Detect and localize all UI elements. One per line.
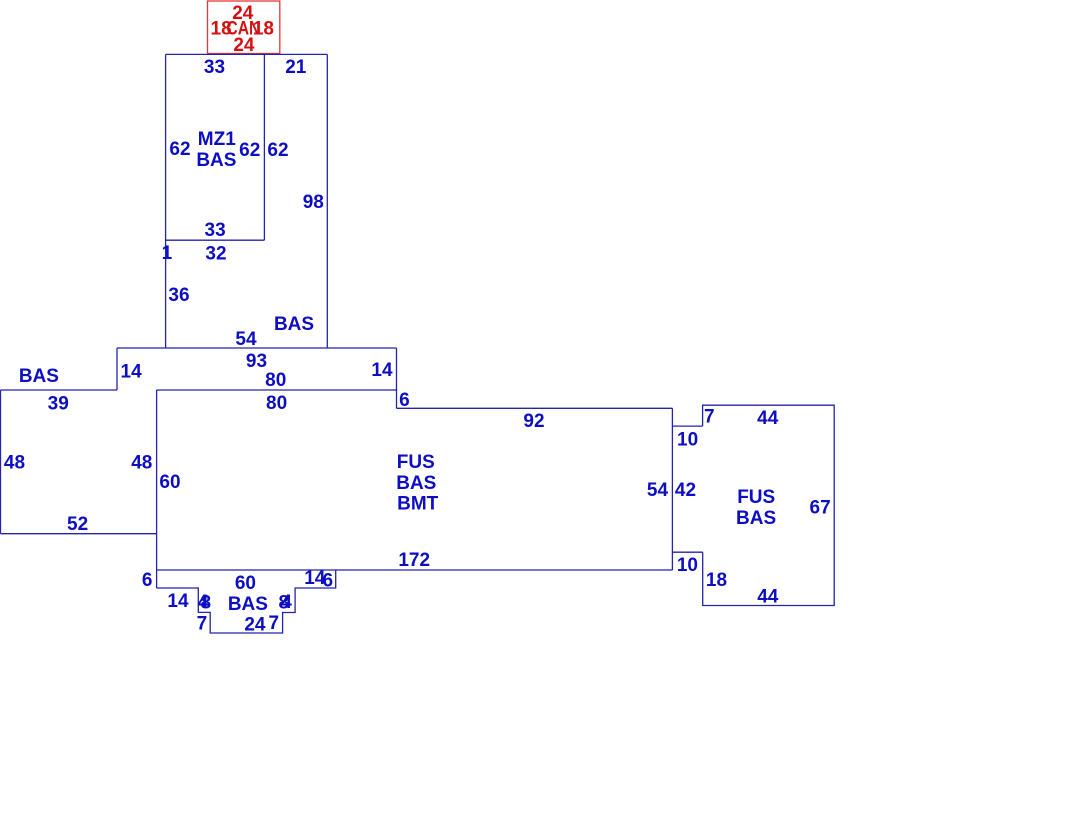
svg-text:48: 48 xyxy=(131,452,152,473)
svg-text:7: 7 xyxy=(704,406,715,427)
right FUS BAS building outline xyxy=(703,405,835,605)
wall left BAS top xyxy=(1,389,118,391)
svg-text:172: 172 xyxy=(398,550,430,571)
svg-text:6: 6 xyxy=(399,390,410,411)
svg-text:14: 14 xyxy=(167,591,189,612)
wall upper building left xyxy=(165,54,167,348)
svg-text:32: 32 xyxy=(205,243,226,264)
svg-text:54: 54 xyxy=(647,480,669,501)
wall step 10 top xyxy=(672,425,702,427)
svg-text:33: 33 xyxy=(204,57,225,78)
wall right 14/6 step vertical xyxy=(396,348,398,408)
svg-text:FUS: FUS xyxy=(737,487,775,508)
wall left BAS left xyxy=(0,390,2,534)
wall MZ1 inner vertical xyxy=(263,54,265,240)
svg-text:14: 14 xyxy=(371,360,393,381)
svg-text:8: 8 xyxy=(201,592,212,613)
svg-text:7: 7 xyxy=(269,613,280,634)
svg-text:48: 48 xyxy=(4,452,25,473)
svg-text:52: 52 xyxy=(67,514,88,535)
svg-text:36: 36 xyxy=(168,285,189,306)
svg-text:98: 98 xyxy=(303,192,324,213)
svg-text:7: 7 xyxy=(197,614,208,635)
svg-text:BAS: BAS xyxy=(274,314,314,335)
svg-text:60: 60 xyxy=(159,472,180,493)
svg-text:18: 18 xyxy=(706,570,727,591)
svg-text:21: 21 xyxy=(285,57,307,78)
wall MZ1 box bottom xyxy=(165,239,264,241)
wall upper building top xyxy=(166,53,328,55)
svg-text:MZ1: MZ1 xyxy=(198,129,236,150)
svg-text:FUS: FUS xyxy=(397,452,435,473)
svg-text:BAS: BAS xyxy=(396,473,436,494)
wall step 10 bottom xyxy=(672,551,702,553)
small bottom BAS building outline xyxy=(157,570,336,633)
wall FUS right 54 xyxy=(671,408,673,570)
svg-text:67: 67 xyxy=(810,497,831,518)
svg-text:24: 24 xyxy=(233,35,255,56)
svg-text:62: 62 xyxy=(169,139,190,160)
svg-text:80: 80 xyxy=(265,370,286,391)
svg-text:54: 54 xyxy=(235,329,257,350)
canopy CAN box (red) xyxy=(208,1,280,54)
svg-text:80: 80 xyxy=(266,393,287,414)
svg-text:62: 62 xyxy=(239,140,260,161)
wall 80-line xyxy=(157,389,397,391)
wall 92-line xyxy=(397,407,673,409)
svg-text:4: 4 xyxy=(281,592,292,613)
svg-text:60: 60 xyxy=(235,573,256,594)
svg-text:BAS: BAS xyxy=(19,366,59,387)
svg-text:BAS: BAS xyxy=(228,594,268,615)
wall 93-line xyxy=(117,347,397,349)
wall FUS left (shared with small BAS) xyxy=(156,390,158,588)
wall upper building right xyxy=(326,54,328,348)
wall left BAS bottom xyxy=(1,533,157,535)
svg-text:BAS: BAS xyxy=(736,508,776,529)
svg-text:92: 92 xyxy=(523,411,544,432)
svg-text:10: 10 xyxy=(677,555,698,576)
svg-text:93: 93 xyxy=(246,351,267,372)
svg-text:1: 1 xyxy=(162,243,173,264)
svg-text:44: 44 xyxy=(757,586,779,607)
svg-text:6: 6 xyxy=(142,570,153,591)
svg-text:BAS: BAS xyxy=(196,150,236,171)
svg-text:39: 39 xyxy=(48,393,69,414)
svg-text:10: 10 xyxy=(677,430,698,451)
wall 172-line xyxy=(157,569,673,571)
svg-text:14: 14 xyxy=(121,361,143,382)
svg-text:6: 6 xyxy=(323,570,334,591)
wall left 14 step vertical xyxy=(116,348,118,390)
svg-text:42: 42 xyxy=(675,480,696,501)
svg-text:BMT: BMT xyxy=(397,494,439,515)
svg-text:62: 62 xyxy=(267,140,288,161)
svg-text:44: 44 xyxy=(757,408,779,429)
svg-text:33: 33 xyxy=(205,220,226,241)
svg-text:24: 24 xyxy=(244,614,266,635)
svg-text:18: 18 xyxy=(253,18,274,39)
